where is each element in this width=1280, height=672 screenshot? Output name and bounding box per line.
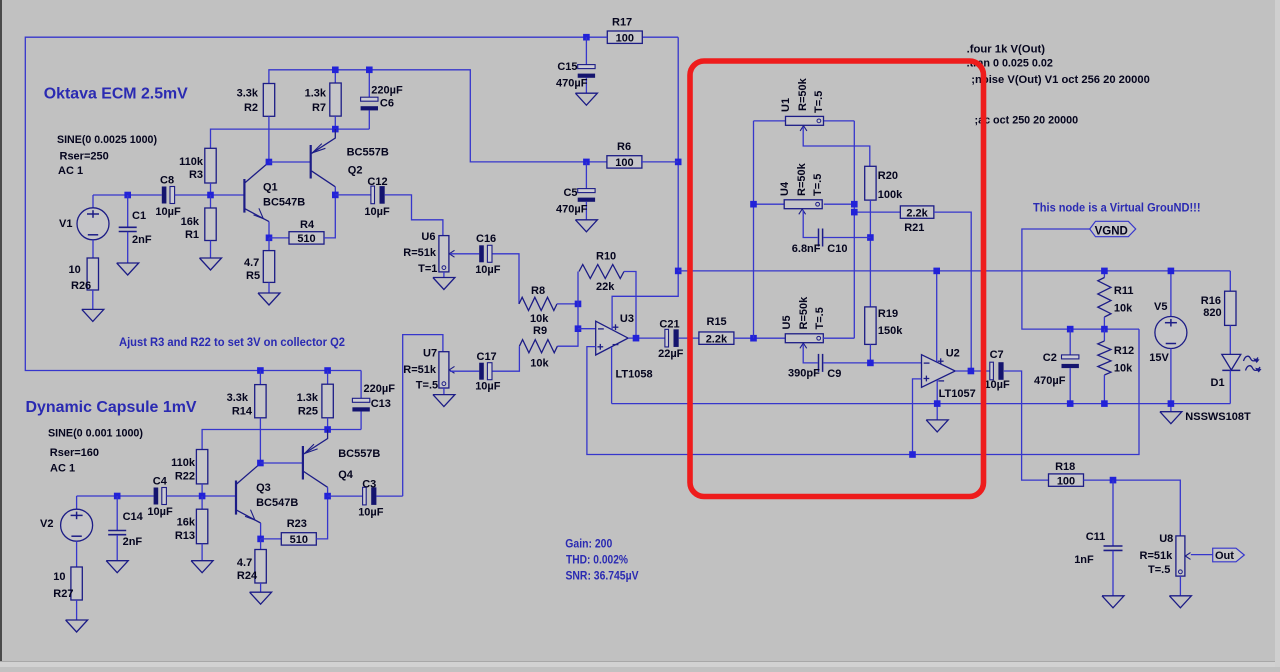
- node R14 top junction: [257, 367, 264, 374]
- wire U1 wiper to R20: [803, 127, 870, 166]
- wire C3 output: [376, 495, 402, 497]
- svg-text:C15: C15: [557, 61, 577, 73]
- svg-text:4.7: 4.7: [237, 557, 252, 569]
- resistor R11: [1103, 271, 1105, 278]
- svg-text:C13: C13: [371, 398, 391, 410]
- svg-text:T=.5: T=.5: [813, 91, 825, 113]
- svg-text:U2: U2: [946, 348, 960, 360]
- svg-text:110k: 110k: [179, 156, 204, 168]
- svg-text:C16: C16: [476, 233, 496, 245]
- wire R17 to corner: [642, 36, 678, 38]
- svg-text:510: 510: [290, 534, 308, 546]
- svg-text:C12: C12: [367, 176, 387, 188]
- svg-text:D1: D1: [1211, 377, 1225, 389]
- svg-text:150k: 150k: [878, 325, 903, 337]
- node V5 bottom junction: [1168, 400, 1175, 407]
- potentiometer U4: [754, 203, 785, 205]
- svg-text:;noise V(Out) V1 oct 256 20 20: ;noise V(Out) V1 oct 256 20 20000: [971, 74, 1150, 86]
- node C1 junction: [124, 192, 131, 199]
- svg-text:R12: R12: [1114, 345, 1134, 357]
- node U2 V- junction: [934, 400, 941, 407]
- wire vertical x=678 R17/R6 to V+ rail: [677, 37, 679, 271]
- svg-text:220µF: 220µF: [371, 84, 403, 96]
- ground under R13: [191, 561, 213, 573]
- svg-text:.four 1k V(Out): .four 1k V(Out): [967, 44, 1046, 56]
- svg-text:T=.5: T=.5: [416, 380, 438, 392]
- node V5 top junction: [1168, 268, 1175, 275]
- node U4 right junction: [851, 201, 858, 208]
- ground under U8: [1169, 596, 1191, 608]
- svg-text:R7: R7: [312, 102, 326, 114]
- svg-text:U5: U5: [781, 315, 793, 329]
- svg-text:10µF: 10µF: [984, 379, 1010, 391]
- svg-text:C11: C11: [1086, 531, 1106, 543]
- svg-text:T=.5: T=.5: [1148, 564, 1170, 576]
- node C10 junction: [867, 234, 874, 241]
- svg-text:C5: C5: [563, 187, 577, 199]
- ground under C15: [575, 93, 597, 105]
- svg-text:U6: U6: [421, 231, 435, 243]
- svg-text:Dynamic Capsule 1mV: Dynamic Capsule 1mV: [26, 399, 198, 416]
- svg-text:R4: R4: [300, 219, 315, 231]
- node C2 bottom junction: [1067, 400, 1074, 407]
- resistor R14: [259, 371, 261, 385]
- capacitor C6: [368, 70, 370, 97]
- svg-text:SINE(0 0.001 1000): SINE(0 0.001 1000): [48, 428, 143, 440]
- svg-text:R18: R18: [1055, 461, 1075, 473]
- svg-text:BC547B: BC547B: [256, 497, 298, 509]
- wire U2 V+ pin: [936, 271, 938, 362]
- node U2 V+ junction: [933, 268, 940, 275]
- node V+ junction at R6: [675, 159, 682, 166]
- wire Q4 base: [260, 462, 303, 464]
- svg-text:T=1: T=1: [418, 263, 437, 275]
- wire V+ rail: [678, 270, 1230, 272]
- wire R14 to Q3 collector: [259, 418, 261, 464]
- ground under C14: [106, 561, 128, 573]
- resistor R18: [1049, 474, 1084, 486]
- svg-text:10: 10: [69, 264, 81, 276]
- resistor R27: [71, 567, 82, 600]
- node Q3 collector junction: [257, 460, 264, 467]
- node Q2 collector junction: [332, 192, 339, 199]
- svg-text:R9: R9: [533, 325, 547, 337]
- node Q3 emitter junction: [257, 536, 264, 543]
- svg-text:Q3: Q3: [256, 482, 271, 494]
- svg-text:C6: C6: [380, 98, 394, 110]
- svg-text:U3: U3: [620, 313, 634, 325]
- LED D1 emission arrows: [1244, 356, 1259, 361]
- op-amp U2: [922, 355, 956, 388]
- resistor R10: [579, 265, 624, 279]
- wire C7 to R18: [1004, 371, 1049, 480]
- svg-text:VGND: VGND: [1095, 226, 1128, 238]
- svg-text:C17: C17: [477, 351, 497, 363]
- svg-text:C4: C4: [153, 476, 168, 488]
- wire R21 to U2 output: [934, 212, 971, 371]
- svg-text:100: 100: [615, 157, 633, 169]
- wire base bias rail y=129: [211, 129, 370, 148]
- wire C21 to R15: [679, 337, 699, 339]
- resistor R4: [269, 237, 289, 239]
- resistor R2: [263, 84, 274, 117]
- node R11/R12 junction: [1101, 326, 1108, 333]
- svg-text:10µF: 10µF: [475, 381, 501, 393]
- flag VGND: [1090, 221, 1136, 236]
- capacitor C11: [1112, 480, 1114, 546]
- svg-text:R27: R27: [53, 588, 73, 600]
- window bottom band: [0, 662, 1280, 667]
- wire R15 to U5: [734, 337, 785, 339]
- svg-text:10µF: 10µF: [147, 506, 173, 518]
- transistor Q2: [310, 145, 312, 179]
- node C11 junction: [1110, 477, 1117, 484]
- node R25 top junction: [324, 367, 331, 374]
- resistor R16: [1229, 271, 1231, 291]
- wire U3 V- to ground rail: [611, 347, 613, 404]
- svg-text:R15: R15: [707, 316, 727, 328]
- svg-text:SINE(0 0.0025 1000): SINE(0 0.0025 1000): [57, 134, 157, 146]
- wire Q4 collector: [327, 487, 329, 496]
- potentiometer U6: [439, 236, 449, 272]
- svg-text:BC547B: BC547B: [263, 197, 305, 209]
- resistor R19: [865, 307, 876, 345]
- node C6 top: [366, 67, 373, 74]
- node R6/C5 junction: [583, 159, 590, 166]
- wire summing node vertical: [577, 272, 579, 329]
- resistor R9: [519, 340, 557, 353]
- wire U5 wiper to C9: [803, 344, 818, 363]
- svg-text:100: 100: [616, 32, 634, 44]
- node Q1 emitter junction: [266, 235, 273, 242]
- resistor R21: [900, 206, 934, 218]
- transistor Q4: [302, 446, 304, 480]
- svg-text:820: 820: [1203, 307, 1221, 319]
- capacitor C5: [585, 162, 587, 189]
- wire R2 to Q1 collector: [268, 116, 270, 162]
- wire Q3 emitter: [260, 523, 262, 539]
- wire C9 to U2 inverting input: [823, 362, 921, 364]
- capacitor C7: [990, 362, 994, 380]
- svg-text:AC 1: AC 1: [50, 463, 75, 475]
- resistor R3: [205, 148, 216, 183]
- svg-text:THD: 0.002%: THD: 0.002%: [566, 555, 628, 567]
- resistor R24: [260, 539, 262, 550]
- svg-text:V5: V5: [1154, 301, 1167, 313]
- svg-text:390pF: 390pF: [788, 368, 820, 380]
- svg-text:C10: C10: [827, 243, 847, 255]
- node V+ rail start: [675, 268, 682, 275]
- svg-text:10k: 10k: [530, 313, 549, 325]
- svg-text:100k: 100k: [878, 189, 903, 201]
- red highlight box: [690, 61, 984, 497]
- svg-text:U4: U4: [779, 181, 791, 196]
- wire outer supply loop: [25, 37, 586, 370]
- svg-text:NSSWS108T: NSSWS108T: [1185, 411, 1251, 423]
- svg-text:Rser=160: Rser=160: [50, 447, 99, 459]
- node R25/Q4 emitter junction: [324, 426, 331, 433]
- svg-text:2.2k: 2.2k: [906, 207, 928, 219]
- resistor R17: [607, 31, 642, 43]
- svg-text:470µF: 470µF: [556, 77, 588, 89]
- svg-text:2nF: 2nF: [132, 234, 152, 246]
- wire C12 to U6: [385, 195, 443, 236]
- svg-text:3.3k: 3.3k: [237, 87, 259, 99]
- svg-text:R8: R8: [531, 285, 545, 297]
- wire main input lower: [77, 495, 154, 497]
- svg-text:R25: R25: [298, 406, 318, 418]
- resistor R25: [327, 371, 329, 385]
- wire Q2 collector: [334, 187, 336, 195]
- ground under R26: [82, 309, 104, 321]
- wire R19 to C9 line: [869, 344, 871, 363]
- resistor R23: [261, 538, 282, 540]
- svg-text:6.8nF: 6.8nF: [792, 243, 821, 255]
- source V5: [1170, 271, 1172, 317]
- node U2 output junction: [968, 368, 975, 375]
- wire U3 output: [628, 337, 665, 339]
- node Q4 collector junction: [324, 493, 331, 500]
- wire upper supply rail: [269, 70, 608, 162]
- capacitor C2: [1069, 329, 1071, 355]
- node U4 left junction: [750, 201, 757, 208]
- svg-text:10µF: 10µF: [358, 507, 384, 519]
- potentiometer U1: [754, 120, 786, 122]
- svg-text:;ac oct 250 20 20000: ;ac oct 250 20 20000: [975, 115, 1079, 127]
- op-amp U3: [596, 321, 628, 355]
- wire C17 to R9: [492, 346, 519, 371]
- ground under R27: [66, 620, 88, 632]
- capacitor C10: [818, 229, 820, 247]
- svg-text:22k: 22k: [596, 281, 615, 293]
- node U3 output junction: [633, 335, 640, 342]
- wire U6 wiper to C16: [450, 253, 479, 255]
- svg-text:10µF: 10µF: [475, 264, 501, 276]
- svg-text:1.3k: 1.3k: [297, 392, 319, 404]
- wire pots left vertical: [753, 121, 755, 338]
- svg-text:220µF: 220µF: [364, 383, 396, 395]
- wire Q2 base: [269, 161, 311, 163]
- potentiometer U7: [439, 352, 449, 388]
- svg-text:R2: R2: [244, 102, 258, 114]
- capacitor C14: [116, 496, 118, 530]
- flag VGND wire: [1022, 229, 1139, 329]
- capacitor C9: [818, 354, 820, 372]
- svg-text:100: 100: [1057, 475, 1075, 487]
- node R19 bottom junction: [867, 360, 874, 367]
- LED D1: [1222, 354, 1241, 370]
- node R3/R1/base junction: [207, 192, 214, 199]
- svg-text:R=50k: R=50k: [798, 296, 810, 330]
- svg-text:510: 510: [297, 233, 315, 245]
- wire U2 V- pin: [936, 380, 938, 420]
- transistor Q3: [235, 481, 237, 515]
- svg-text:T=.5: T=.5: [812, 174, 824, 196]
- ground under R1: [200, 258, 222, 270]
- resistor R13: [201, 496, 203, 509]
- potentiometer U8: [1176, 536, 1185, 576]
- svg-text:10k: 10k: [1114, 363, 1133, 375]
- svg-text:R=51k: R=51k: [403, 364, 437, 376]
- svg-text:C7: C7: [990, 349, 1004, 361]
- wire C16 to R8: [492, 254, 519, 304]
- svg-text:C1: C1: [132, 210, 146, 222]
- source V2: [76, 496, 78, 509]
- capacitor C16: [479, 245, 484, 262]
- ground under C11: [1102, 596, 1124, 608]
- svg-text:C21: C21: [659, 319, 679, 331]
- capacitor C15: [585, 37, 587, 64]
- svg-text:BC557B: BC557B: [347, 147, 389, 159]
- wire lower bias rail: [202, 430, 361, 450]
- svg-text:R23: R23: [287, 518, 307, 530]
- capacitor C1: [127, 195, 129, 227]
- ground under U7: [433, 395, 455, 407]
- node Q1 collector junction: [266, 159, 273, 166]
- svg-text:SNR: 36.745µV: SNR: 36.745µV: [566, 571, 639, 583]
- svg-text:Out: Out: [1215, 550, 1234, 562]
- svg-text:T=.5: T=.5: [814, 307, 826, 329]
- svg-text:Q2: Q2: [348, 165, 363, 177]
- wire main input upper: [93, 194, 162, 196]
- capacitor C12: [335, 194, 371, 196]
- svg-text:U7: U7: [423, 348, 437, 360]
- wire U3 noninverting input to VGND rail: [587, 329, 1139, 454]
- potentiometer U5: [785, 334, 823, 343]
- node C14 junction: [114, 493, 121, 500]
- svg-text:3.3k: 3.3k: [227, 392, 249, 404]
- svg-text:R17: R17: [612, 17, 632, 29]
- wire U3 inverting input: [578, 328, 596, 330]
- ground NSSWS108T: [1160, 412, 1182, 424]
- svg-text:16k: 16k: [177, 517, 196, 529]
- resistor R6: [607, 156, 642, 168]
- svg-text:10k: 10k: [1114, 303, 1133, 315]
- svg-text:AC 1: AC 1: [58, 165, 83, 177]
- svg-text:R22: R22: [175, 471, 195, 483]
- svg-text:C14: C14: [123, 511, 144, 523]
- svg-text:R21: R21: [904, 222, 924, 234]
- node R21 junction: [851, 209, 858, 216]
- svg-text:R11: R11: [1114, 285, 1134, 297]
- svg-text:R19: R19: [878, 308, 898, 320]
- svg-text:470µF: 470µF: [556, 204, 588, 216]
- transistor Q1: [243, 179, 245, 213]
- capacitor C21: [665, 329, 669, 347]
- svg-text:Gain: 200: Gain: 200: [565, 538, 612, 550]
- svg-text:10µF: 10µF: [364, 206, 390, 218]
- svg-text:R=51k: R=51k: [403, 247, 437, 259]
- svg-text:This node is a Virtual GrouND!: This node is a Virtual GrouND!!!: [1033, 201, 1201, 215]
- wire U4 wiper to C10: [803, 210, 818, 237]
- svg-text:V2: V2: [40, 518, 53, 530]
- resistor R15: [699, 332, 734, 344]
- capacitor C8: [162, 187, 167, 204]
- resistor R8: [519, 297, 557, 310]
- node R12 bottom junction: [1101, 400, 1108, 407]
- wire C10 to R20/R19 node: [823, 237, 870, 239]
- node R7/Q2 emitter junction: [332, 126, 339, 133]
- ground under U6: [433, 278, 455, 290]
- svg-text:R5: R5: [246, 270, 260, 282]
- resistor R7: [334, 70, 336, 83]
- svg-text:Q4: Q4: [338, 469, 354, 481]
- svg-text:V1: V1: [59, 218, 72, 230]
- potentiometer U7 input wire: [403, 335, 443, 497]
- node U2 + input junction: [909, 451, 916, 458]
- wire R21 line: [854, 211, 900, 213]
- resistor R20: [865, 166, 876, 200]
- svg-text:Ajust R3 and R22 to set 3V on: Ajust R3 and R22 to set 3V on collector …: [119, 335, 345, 349]
- svg-text:U8: U8: [1159, 533, 1173, 545]
- svg-text:10: 10: [53, 571, 65, 583]
- svg-text:C8: C8: [160, 175, 174, 187]
- svg-text:15V: 15V: [1149, 352, 1169, 364]
- wire U2 noninverting input: [913, 379, 922, 455]
- capacitor C13: [360, 371, 362, 399]
- svg-text:2nF: 2nF: [123, 536, 143, 548]
- svg-text:10µF: 10µF: [155, 206, 181, 218]
- svg-text:R10: R10: [596, 251, 616, 263]
- svg-text:R24: R24: [237, 570, 258, 582]
- node U4 left leg junction: [750, 335, 757, 342]
- node R9 summing junction: [575, 325, 582, 332]
- wire U8 wiper to Out flag: [1191, 554, 1213, 556]
- svg-text:R=51k: R=51k: [1140, 550, 1174, 562]
- svg-text:110k: 110k: [171, 457, 196, 469]
- svg-text:R=50k: R=50k: [797, 77, 809, 111]
- svg-text:LT1058: LT1058: [616, 369, 653, 381]
- svg-text:R13: R13: [175, 530, 195, 542]
- wire C8 to Q1 base: [175, 194, 245, 196]
- wire R18 to U8: [1083, 480, 1180, 536]
- svg-text:10k: 10k: [530, 358, 549, 370]
- wire U2 output: [955, 370, 990, 372]
- resistor R22: [196, 450, 207, 484]
- svg-text:C9: C9: [827, 368, 841, 380]
- svg-text:C3: C3: [362, 479, 376, 491]
- svg-text:BC557B: BC557B: [338, 448, 380, 460]
- svg-text:LT1057: LT1057: [939, 388, 976, 400]
- svg-text:1nF: 1nF: [1074, 554, 1094, 566]
- resistor R5: [268, 238, 270, 251]
- node R11 top junction: [1101, 268, 1108, 275]
- wire V- ground rail: [612, 403, 1231, 405]
- resistor R12: [1103, 329, 1105, 341]
- wire U7 wiper to C17: [450, 370, 479, 372]
- svg-text:Rser=250: Rser=250: [60, 151, 109, 163]
- node R22/R13/base junction: [199, 493, 206, 500]
- svg-text:16k: 16k: [181, 216, 200, 228]
- window left border: [0, 0, 2, 667]
- svg-text:Oktava ECM 2.5mV: Oktava ECM 2.5mV: [44, 85, 189, 102]
- source V1: [92, 195, 94, 208]
- resistor R1: [210, 195, 212, 208]
- svg-text:R1: R1: [185, 229, 199, 241]
- svg-text:R=50k: R=50k: [796, 162, 808, 196]
- svg-text:4.7: 4.7: [244, 257, 259, 269]
- svg-text:R16: R16: [1201, 295, 1221, 307]
- svg-text:R3: R3: [189, 169, 203, 181]
- wire R20 to R19: [869, 200, 871, 307]
- wire U3 V+ spur: [612, 271, 678, 330]
- ground under R24: [250, 592, 272, 604]
- wire Q1 emitter: [268, 222, 270, 238]
- svg-text:22µF: 22µF: [658, 348, 684, 360]
- node R17/C15 junction: [583, 34, 590, 41]
- ground under C5: [575, 220, 597, 232]
- capacitor C4: [154, 488, 159, 505]
